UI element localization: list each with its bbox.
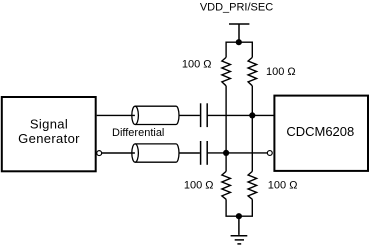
wire (VDD node to both resistor tops) bbox=[226, 42, 252, 57]
power rail VDD_PRI/SEC bbox=[229, 24, 249, 42]
resistor top-left 100 Ω bbox=[222, 57, 231, 85]
svg-text:100 Ω: 100 Ω bbox=[184, 179, 214, 191]
wire (left vertical: top resistor to bottom resistor) bbox=[225, 86, 227, 172]
pin bubble (signal generator inverted output) bbox=[97, 151, 102, 156]
CDCM6208 box bbox=[274, 96, 368, 171]
resistor top-right 100 Ω bbox=[248, 57, 257, 85]
svg-text:VDD_PRI/SEC: VDD_PRI/SEC bbox=[200, 2, 273, 14]
wire (both resistor bottoms to ground node) bbox=[226, 199, 252, 216]
svg-text:Generator: Generator bbox=[18, 131, 80, 146]
wire (right vertical: top resistor to bottom resistor) bbox=[251, 86, 253, 172]
wire (signal generator top output to coax) bbox=[97, 114, 135, 116]
signal generator box bbox=[2, 97, 96, 171]
svg-text:Signal: Signal bbox=[30, 116, 68, 131]
svg-text:Differential: Differential bbox=[112, 127, 164, 139]
wire (top capacitor to CDCM6208 input) bbox=[207, 114, 273, 116]
junction dot (VDD node) bbox=[236, 39, 242, 45]
capacitor (top, AC coupling) bbox=[201, 103, 208, 127]
resistor bottom-left 100 Ω bbox=[222, 171, 231, 199]
junction dot (top wire with right resistor string) bbox=[249, 112, 255, 118]
capacitor (bottom, AC coupling) bbox=[201, 141, 208, 165]
svg-text:100 Ω: 100 Ω bbox=[182, 58, 212, 70]
svg-text:100 Ω: 100 Ω bbox=[268, 179, 298, 191]
ground bbox=[231, 216, 248, 244]
wire (bottom coax to bottom capacitor) bbox=[179, 152, 200, 154]
wire (signal generator bottom output to coax) bbox=[102, 152, 135, 154]
wire (bottom capacitor to CDCM6208 inverted input) bbox=[207, 152, 267, 154]
wire (top coax to top capacitor) bbox=[179, 114, 200, 116]
coax cable (bottom) bbox=[132, 144, 179, 162]
junction dot (ground node) bbox=[236, 213, 242, 219]
junction dot (bottom wire with left resistor string) bbox=[223, 150, 229, 156]
resistor bottom-right 100 Ω bbox=[248, 171, 257, 199]
coax cable (top) bbox=[132, 106, 179, 124]
pin bubble (CDCM6208 inverted input) bbox=[267, 151, 272, 156]
svg-text:100 Ω: 100 Ω bbox=[266, 66, 296, 78]
svg-text:CDCM6208: CDCM6208 bbox=[286, 124, 354, 139]
